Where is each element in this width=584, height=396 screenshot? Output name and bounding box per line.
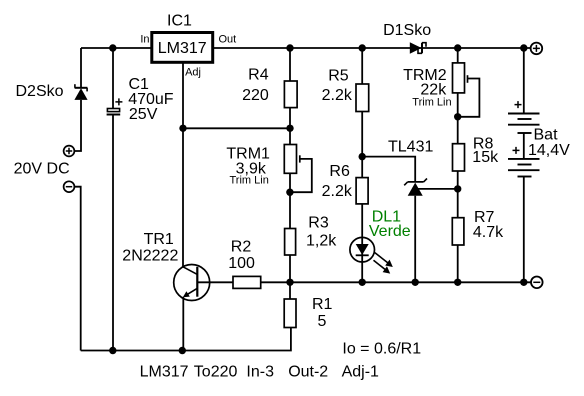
resistor R4: [284, 81, 297, 108]
label TL431: [388, 139, 433, 156]
node R4 top: [286, 44, 293, 51]
label 22k: [420, 82, 447, 99]
wire minus terminal to ground rail: [74, 187, 80, 351]
svg-text:IC1: IC1: [167, 13, 192, 30]
svg-text:2N2222: 2N2222: [122, 248, 178, 265]
resistor R3: [285, 229, 296, 256]
label Trim Lin TRM1: [230, 175, 269, 187]
label R3: [308, 214, 329, 231]
svg-text:TR1: TR1: [144, 231, 174, 248]
battery Bat 14.4V: [508, 101, 540, 176]
label LM317: [158, 40, 207, 57]
label 14,4V: [528, 142, 570, 159]
resistor R1: [284, 299, 296, 328]
label TR1: [144, 231, 174, 248]
label D1Sko: [383, 22, 431, 39]
wire D2 branch upper: [80, 48, 82, 88]
terminal minus battery: [531, 277, 543, 289]
svg-text:2.2k: 2.2k: [322, 87, 353, 104]
label Verde: [369, 223, 411, 240]
svg-text:5: 5: [318, 313, 327, 330]
svg-text:To220: To220: [194, 364, 238, 381]
svg-text:R6: R6: [329, 163, 350, 180]
transistor Q1 TR1 2N2222: [174, 265, 210, 301]
svg-text:25V: 25V: [129, 106, 158, 123]
svg-text:220: 220: [242, 87, 269, 104]
svg-text:R2: R2: [231, 238, 252, 255]
node R1 top: [286, 279, 293, 286]
svg-text:D1Sko: D1Sko: [383, 22, 431, 39]
node TRM1 bottom: [286, 189, 293, 196]
svg-text:In: In: [140, 34, 149, 46]
node ground emitter: [179, 347, 186, 354]
svg-text:Adj: Adj: [185, 67, 201, 79]
wire base to R2: [197, 281, 233, 283]
label R8: [473, 136, 494, 153]
node R8 R7: [454, 185, 461, 192]
svg-text:Bat: Bat: [534, 127, 559, 144]
svg-text:15k: 15k: [472, 149, 499, 166]
label 100: [228, 255, 255, 272]
label 3,9k: [236, 161, 267, 178]
terminal minus 20V input: [64, 181, 75, 192]
svg-text:Verde: Verde: [369, 223, 411, 240]
shunt regulator U2 TL431: [404, 179, 427, 196]
svg-text:R5: R5: [328, 68, 349, 85]
wire TL431 cathode out: [415, 188, 458, 190]
svg-text:20V DC: 20V DC: [14, 161, 70, 178]
wire C1 upper: [112, 48, 114, 109]
svg-text:Trim Lin: Trim Lin: [412, 97, 451, 109]
wire TL431 ref link: [362, 157, 415, 182]
wire Adj to R4 bottom link: [183, 127, 290, 129]
label Bat: [534, 127, 559, 144]
svg-text:R3: R3: [308, 214, 329, 231]
label Adj: [185, 67, 201, 79]
resistor R2: [233, 276, 261, 288]
label 220: [242, 87, 269, 104]
wire R5 bottom to R6: [361, 112, 363, 178]
node C1 top: [109, 44, 116, 51]
capacitor C1: [107, 98, 123, 114]
wire TRM2 bottom to R8: [457, 93, 459, 144]
node ground C1: [109, 347, 116, 354]
node TRM2 top: [454, 44, 461, 51]
node divider R5 R6: [359, 153, 366, 160]
node Adj left: [179, 125, 186, 132]
wire D2 anode to plus terminal: [74, 100, 81, 151]
svg-text:Trim Lin: Trim Lin: [230, 175, 269, 187]
wire TL431 anode down: [414, 196, 416, 283]
label TRM1: [226, 145, 270, 162]
label Trim Lin TRM2: [412, 97, 451, 109]
svg-text:LM317: LM317: [158, 40, 207, 57]
LED DL1: [350, 237, 393, 273]
wire Adj pin down: [182, 62, 184, 266]
svg-text:Out-2: Out-2: [288, 364, 328, 381]
wire R7 bottom: [457, 245, 459, 282]
label 2.2k R6: [322, 183, 353, 200]
svg-text:TL431: TL431: [388, 139, 433, 156]
svg-text:Io = 0.6/R1: Io = 0.6/R1: [342, 341, 421, 358]
resistor R6: [356, 178, 368, 204]
label 2.2k R5: [322, 87, 353, 104]
label Io formula: [342, 341, 421, 358]
svg-text:2.2k: 2.2k: [322, 183, 353, 200]
label C1: [129, 76, 150, 93]
wire TRM1 bottom to R3: [289, 173, 291, 228]
diode D2 Schottky: [74, 84, 87, 100]
svg-text:Out: Out: [219, 34, 237, 46]
node TL431 anode: [412, 279, 419, 286]
label 20V DC: [14, 161, 70, 178]
wire R4 top: [289, 48, 291, 81]
wire C1 lower: [112, 115, 114, 351]
terminal plus 20V input: [64, 146, 75, 157]
label R5: [328, 68, 349, 85]
node TRM2 bottom: [454, 113, 461, 120]
wire emitter down: [182, 297, 184, 351]
wire bottom ground rail: [81, 328, 291, 351]
svg-text:Adj-1: Adj-1: [342, 364, 379, 381]
terminal plus battery: [531, 43, 543, 55]
node LED bottom: [359, 279, 366, 286]
wire R1 top: [289, 282, 291, 299]
svg-text:In-3: In-3: [246, 364, 274, 381]
node R4 bottom: [286, 125, 293, 132]
svg-text:4.7k: 4.7k: [473, 224, 504, 241]
label R4: [248, 67, 269, 84]
resistor R8: [453, 144, 465, 171]
label 15k: [472, 149, 499, 166]
wire TRM2 top: [457, 48, 459, 63]
svg-text:100: 100: [228, 255, 255, 272]
label pinout In-3: [246, 364, 274, 381]
svg-text:LM317: LM317: [140, 364, 189, 381]
wire negative sense rail: [261, 281, 531, 283]
wire R5 top: [361, 48, 363, 84]
wire R4 bottom to TRM1: [289, 108, 291, 145]
label D2Sko: [16, 83, 64, 100]
label IC1: [167, 13, 192, 30]
trimmer TRM2: [453, 63, 480, 117]
label pinout Adj-1: [342, 364, 379, 381]
wire R3 bottom: [289, 255, 291, 282]
svg-text:14,4V: 14,4V: [528, 142, 570, 159]
op-amp-regulator IC1 LM317 box: [152, 33, 213, 63]
label R7: [474, 209, 495, 226]
resistor R5: [356, 84, 369, 112]
label Out: [219, 34, 237, 46]
wire battery bottom: [523, 177, 525, 283]
label R2: [231, 238, 252, 255]
wire top rail left: [81, 47, 152, 49]
label DL1: [372, 209, 401, 226]
node R7 bottom: [454, 279, 461, 286]
label pinout To220: [194, 364, 238, 381]
node battery top: [520, 44, 527, 51]
label 2N2222: [122, 248, 178, 265]
label 1,2k: [306, 233, 337, 250]
wire R8 bottom to R7: [457, 171, 459, 218]
label R1: [312, 296, 333, 313]
svg-text:D2Sko: D2Sko: [16, 83, 64, 100]
label 470uF: [128, 91, 174, 108]
trimmer TRM1: [284, 145, 312, 193]
label In: [140, 34, 149, 46]
label R6: [329, 163, 350, 180]
node R5 top: [359, 44, 366, 51]
diode D1 Schottky: [410, 42, 426, 54]
svg-text:R4: R4: [248, 67, 269, 84]
label 25V: [129, 106, 158, 123]
wire R6 bottom through LED: [361, 204, 363, 282]
label 5: [318, 313, 327, 330]
node battery bottom: [520, 279, 527, 286]
wire battery top: [523, 48, 525, 114]
wire top rail right: [213, 47, 531, 49]
label TRM2: [403, 67, 447, 84]
svg-text:1,2k: 1,2k: [306, 233, 337, 250]
label pinout LM317: [140, 364, 189, 381]
resistor R7: [452, 218, 464, 245]
label 4.7k: [473, 224, 504, 241]
label pinout Out-2: [288, 364, 328, 381]
svg-text:R1: R1: [312, 296, 333, 313]
